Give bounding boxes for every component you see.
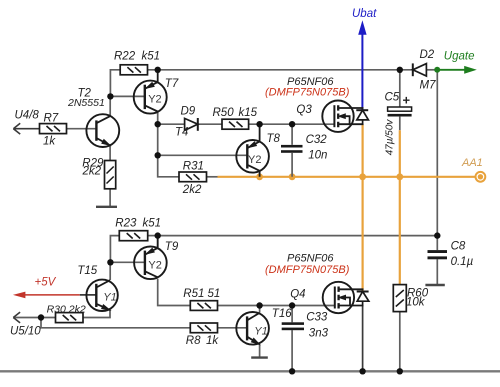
bottom common rail <box>0 370 500 372</box>
wire R23 branches <box>110 236 158 281</box>
resistor R22 <box>120 65 147 75</box>
svg-text:(DMFP75N075B): (DMFP75N075B) <box>265 264 350 276</box>
diode D9 <box>185 118 198 131</box>
svg-text:Ubat: Ubat <box>352 8 377 20</box>
svg-text:k51: k51 <box>142 51 161 63</box>
transistor T2 (NPN 2N5551) <box>86 114 119 147</box>
wire feedback Ugate vertical <box>436 70 438 236</box>
wire T9 collector stub <box>157 236 159 248</box>
junction orange dot C5/R60 column on bus <box>396 173 403 180</box>
svg-text:T15: T15 <box>77 265 97 277</box>
svg-text:2k2: 2k2 <box>81 166 101 178</box>
power Ubat arrow <box>358 20 366 110</box>
resistor R7 <box>40 124 67 134</box>
svg-text:Y2: Y2 <box>248 154 261 166</box>
diode D2 <box>413 63 427 76</box>
wire T2 emitter to R29 <box>109 146 111 161</box>
wire R22 left branch to T2 collector / T7 base <box>110 70 145 116</box>
svg-text:T16: T16 <box>272 308 292 320</box>
junction dot T16 collector on Q4 gate wire <box>256 302 262 308</box>
wire orange Q3 source to Q4 drain column x=362.6 <box>362 124 364 290</box>
body diode of Q3 <box>356 110 368 124</box>
resistor R51 <box>190 301 217 311</box>
junction dot C33 on rail <box>289 368 295 374</box>
wire T9 emitter to R51 <box>158 279 191 306</box>
transistor T9 (PNP Y2) <box>134 236 167 279</box>
resistor R60 <box>393 285 406 312</box>
svg-text:+: + <box>403 92 411 107</box>
junction orange dot Q3 source column on bus <box>359 173 366 180</box>
svg-text:Q4: Q4 <box>290 288 305 300</box>
mosfet Q3 (P65NF06) <box>322 101 363 132</box>
junction dot Q4 source on rail <box>359 368 365 374</box>
svg-text:(DMFP75N075B): (DMFP75N075B) <box>265 87 350 99</box>
wire T16 collector stub <box>259 306 261 313</box>
svg-text:R30 2k2: R30 2k2 <box>47 303 86 315</box>
svg-text:R51: R51 <box>183 288 204 300</box>
svg-text:1k: 1k <box>43 136 56 148</box>
svg-text:AA1: AA1 <box>461 157 483 169</box>
wire C33 top <box>291 306 293 323</box>
wire orange C5 bottom to R60 top column x=399.8 <box>399 130 401 284</box>
svg-text:R31: R31 <box>183 161 204 173</box>
svg-text:R50: R50 <box>213 107 235 119</box>
wire R8 to T16 base <box>218 327 248 329</box>
transistor T16 (NPN Y1) <box>236 312 269 345</box>
capacitor C33 <box>282 322 304 330</box>
svg-text:C5: C5 <box>385 91 400 103</box>
svg-text:47µ/50v: 47µ/50v <box>384 119 395 156</box>
svg-text:Y1: Y1 <box>254 326 267 338</box>
junction dot C5 on top rail <box>397 67 403 73</box>
svg-text:k51: k51 <box>143 218 162 230</box>
wire C8 bottom <box>436 259 438 285</box>
wire gate drive y=124.2 <box>158 123 335 125</box>
capacitor C5 electrolytic <box>388 107 412 117</box>
svg-text:T7: T7 <box>165 78 179 90</box>
svg-text:T9: T9 <box>165 241 179 253</box>
resistor R30 <box>56 313 84 323</box>
svg-text:T8: T8 <box>267 133 281 145</box>
svg-text:D2: D2 <box>420 49 435 61</box>
svg-text:Y1: Y1 <box>103 292 116 304</box>
svg-text:Y2: Y2 <box>148 260 161 272</box>
transistor T7 (PNP Y2) <box>134 70 167 114</box>
port U5/10 arrow <box>13 312 20 323</box>
junction dot R23/T9 collector <box>155 232 161 238</box>
svg-text:3n3: 3n3 <box>309 327 329 339</box>
svg-text:2k2: 2k2 <box>182 184 202 196</box>
junction dot C33 on Q4 gate wire <box>289 302 295 308</box>
port U4/8 arrow <box>13 123 39 134</box>
svg-text:10n: 10n <box>308 150 327 162</box>
wire C5 top <box>399 70 401 107</box>
svg-text:Y2: Y2 <box>148 94 161 106</box>
capacitor C32 <box>281 145 303 153</box>
svg-text:+5V: +5V <box>35 277 57 289</box>
junction dot T8 collector on gate wire <box>256 121 262 127</box>
ground below C8 <box>425 284 444 286</box>
resistor R23 <box>119 231 147 241</box>
wire U5/10 node to R30 and R8 <box>13 318 190 328</box>
wire T16 emitter to ground <box>259 344 261 357</box>
svg-text:2N5551: 2N5551 <box>67 97 105 109</box>
wire T7 collector chain to R31 <box>158 111 179 177</box>
svg-text:0.1µ: 0.1µ <box>451 256 474 268</box>
junction dot R23/T15 collector <box>107 259 113 265</box>
wire orange source bus y=176.8 <box>218 176 476 178</box>
svg-text:T4: T4 <box>175 126 188 138</box>
svg-text:51: 51 <box>208 288 221 300</box>
junction dot T8 base branch <box>155 152 161 158</box>
wire R29 to ground <box>109 189 111 207</box>
ground below T16 <box>251 356 268 358</box>
wire C5 bottom dark stub <box>399 117 401 131</box>
svg-text:Q3: Q3 <box>296 104 312 116</box>
wire T15 emitter to R30 <box>83 310 110 318</box>
resistor R31 <box>179 172 207 182</box>
wire C8 top <box>436 236 438 251</box>
svg-text:D9: D9 <box>181 105 196 117</box>
svg-text:k15: k15 <box>239 107 258 119</box>
junction dot T7 emitter on top rail <box>155 67 161 73</box>
wire Q4 gate y=305.5 <box>218 305 335 307</box>
port Ugate arrow <box>434 66 477 74</box>
junction dot R60 on rail <box>397 368 403 374</box>
svg-text:R23: R23 <box>115 218 137 230</box>
svg-text:U4/8: U4/8 <box>15 109 40 121</box>
svg-text:10k: 10k <box>406 297 426 309</box>
svg-text:M7: M7 <box>420 79 437 91</box>
wire R60 bottom to rail <box>399 312 401 372</box>
svg-text:C8: C8 <box>451 241 466 253</box>
terminal AA1 <box>476 172 486 182</box>
junction orange dot C32 on bus <box>289 173 296 180</box>
resistor R50 <box>222 119 249 129</box>
wire R31 right stub <box>207 176 218 178</box>
wire T8 base <box>158 154 248 156</box>
junction orange dot T8 emitter on bus <box>256 173 263 180</box>
wire top gate rail y=69.8 <box>148 69 438 71</box>
junction dot Ugate feedback / C8 <box>434 232 440 238</box>
svg-text:1k: 1k <box>206 335 219 347</box>
junction dot C32 on gate wire <box>289 121 295 127</box>
power +5V arrow <box>13 292 96 299</box>
mosfet Q4 (P65NF06) <box>323 282 364 313</box>
svg-text:Ugate: Ugate <box>444 50 475 62</box>
wire Q4 source to rail <box>362 306 364 372</box>
resistor R29 <box>105 161 116 189</box>
svg-text:P65NF06: P65NF06 <box>287 253 334 265</box>
resistor R8 <box>190 323 217 333</box>
svg-text:U5/10: U5/10 <box>10 326 41 338</box>
capacitor C8 <box>428 250 448 259</box>
transistor T8 (PNP Y2) <box>236 124 269 177</box>
wire C33 bottom to rail <box>291 330 293 371</box>
svg-text:C33: C33 <box>306 311 328 323</box>
svg-text:C32: C32 <box>306 134 328 146</box>
junction dot R22/T2/T7 <box>107 93 113 99</box>
ground below R29 <box>96 206 117 208</box>
wire feedback horizontal y=235.6 <box>158 235 438 237</box>
wire R7 to T2 base <box>67 128 97 130</box>
svg-text:R22: R22 <box>114 51 136 63</box>
svg-text:R8: R8 <box>186 335 201 347</box>
junction dot U5/10 / R30 / R8 <box>38 314 44 320</box>
junction dot T7 collector / D9 <box>155 121 161 127</box>
svg-text:R7: R7 <box>44 113 59 125</box>
body diode of Q4 <box>357 292 369 306</box>
transistor T15 (NPN Y1) <box>86 280 117 311</box>
